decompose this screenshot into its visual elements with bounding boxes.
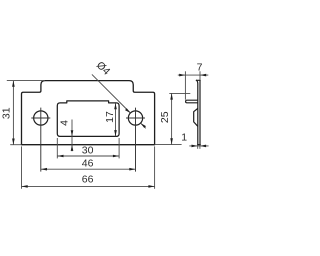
svg-text:7: 7 (197, 61, 203, 73)
side view bent tab (latch lip) (186, 100, 198, 103)
left hole (34, 111, 48, 125)
svg-text:17: 17 (104, 111, 116, 123)
dimension 30 (latch hole width) (57, 138, 119, 158)
right hole (128, 111, 142, 125)
dimension 7 (tab projection) (178, 71, 209, 99)
dimension 17 (latch hole height) (114, 103, 117, 136)
dimension 66 (overall width) (22, 146, 155, 188)
dimension 25 (side height) (169, 93, 190, 144)
svg-text:66: 66 (82, 173, 94, 185)
plate outline (front view) (22, 81, 155, 145)
right hole center mark (126, 108, 145, 172)
svg-text:4: 4 (59, 120, 71, 126)
left hole center mark (31, 108, 50, 172)
dimension 4 (bottom margin of latch hole) (71, 120, 74, 152)
svg-text:30: 30 (82, 144, 94, 156)
side view dimple bump (194, 108, 198, 126)
leader Ø4 (hole diameter callout) (92, 74, 146, 128)
side view plate (196, 80, 200, 144)
projection line (plate bottom to side view) (155, 144, 182, 146)
svg-text:46: 46 (82, 158, 94, 170)
svg-text:31: 31 (0, 107, 12, 119)
dimension 31 (left height) (7, 81, 45, 145)
dimension 46 (hole spacing) (41, 168, 136, 171)
svg-text:25: 25 (159, 111, 171, 123)
latch hole (inner rectangle with raised top middle) (57, 101, 119, 136)
svg-text:1: 1 (181, 131, 187, 143)
dimension 1 (thickness) (189, 145, 208, 149)
